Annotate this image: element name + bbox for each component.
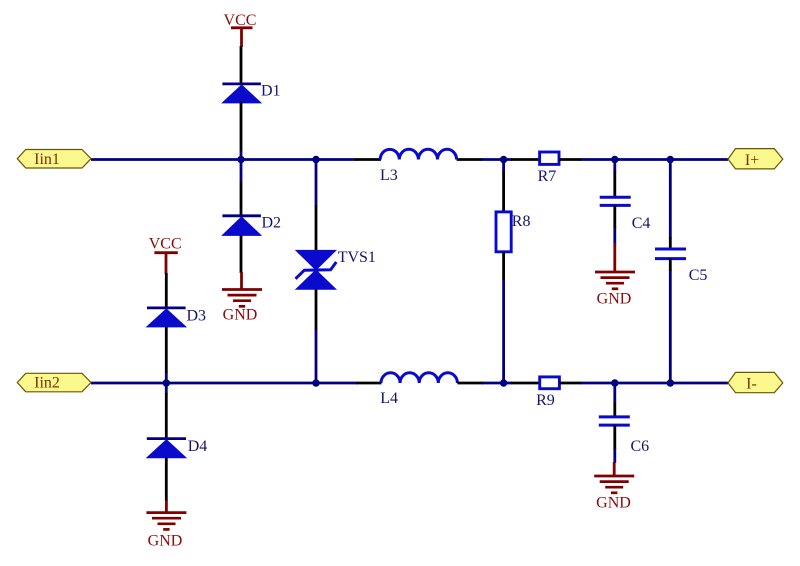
junction node Iin1/D1/D2 xyxy=(237,156,244,163)
power port VCC left xyxy=(149,236,182,274)
pin D3 cathode (to VCC) xyxy=(165,273,168,308)
wire C4 to GND segment xyxy=(613,227,616,244)
svg-text:TVS1: TVS1 xyxy=(338,249,376,266)
capacitor C5 xyxy=(655,249,707,284)
pin R7 left xyxy=(511,158,540,161)
pin C5 bottom xyxy=(669,259,672,271)
pin R7 right xyxy=(559,158,581,161)
svg-text:GND: GND xyxy=(148,533,183,550)
pin TVS1 bottom xyxy=(315,289,318,329)
svg-text:D2: D2 xyxy=(262,215,282,232)
inductor L3 xyxy=(380,149,457,184)
ground GND under D4 xyxy=(146,500,186,550)
svg-text:I+: I+ xyxy=(745,152,759,169)
wire R8 column lower xyxy=(502,279,505,383)
capacitor C6 xyxy=(599,417,649,455)
wire bottom rail: R9 to I- xyxy=(580,382,728,385)
pin L4 left xyxy=(356,382,382,385)
diode D3 xyxy=(147,308,206,327)
junction node bottom rail / R8 xyxy=(500,379,507,386)
wire TVS column upper xyxy=(315,160,318,207)
pin C4 top xyxy=(613,171,616,196)
svg-text:GND: GND xyxy=(223,307,258,324)
svg-text:D4: D4 xyxy=(188,438,208,455)
wire C5 column lower xyxy=(669,270,672,383)
wire bottom rail: L4 to R9 xyxy=(482,382,512,385)
wire C6 to GND segment xyxy=(613,448,616,463)
svg-text:C4: C4 xyxy=(632,215,651,232)
svg-text:R9: R9 xyxy=(536,392,555,409)
pin D2 anode xyxy=(240,235,243,273)
wire C6 column upper stub xyxy=(613,383,616,404)
junction node bottom rail / TVS xyxy=(312,379,319,386)
port Iin1 xyxy=(17,150,91,169)
wire stub at node D1/D2 column xyxy=(240,151,243,183)
pin D4 anode xyxy=(165,458,168,501)
junction node top rail / R8 xyxy=(500,156,507,163)
svg-text:R8: R8 xyxy=(512,213,531,230)
wire top rail: Iin1 to L3 xyxy=(91,158,356,161)
pin D3 anode xyxy=(165,327,168,373)
diode D4 xyxy=(147,438,207,458)
pin D1 anode xyxy=(240,102,243,152)
pin L3 right xyxy=(457,158,482,161)
pin C4 bottom xyxy=(613,205,616,228)
pin R8 bottom xyxy=(502,252,505,280)
TVS diode TVS1 xyxy=(296,249,376,289)
pin C6 bottom xyxy=(613,425,616,449)
svg-text:Iin2: Iin2 xyxy=(34,375,60,392)
diode D2 xyxy=(222,215,281,236)
junction node bottom rail / C5 xyxy=(667,379,674,386)
wire top rail: R7 to I+ xyxy=(580,158,728,161)
pin R8 top xyxy=(502,171,505,212)
pin D2 cathode xyxy=(240,182,243,216)
wire C4 column upper stub xyxy=(613,160,616,173)
resistor R8 xyxy=(496,212,530,252)
ground GND under D2 xyxy=(222,272,262,324)
junction node top rail / TVS xyxy=(312,156,319,163)
pin R9 right xyxy=(559,382,581,385)
resistor R9 xyxy=(536,377,559,409)
resistor R7 xyxy=(538,152,559,185)
svg-text:Iin1: Iin1 xyxy=(34,151,60,168)
port I- xyxy=(728,372,783,392)
junction node bottom rail / C6 xyxy=(611,379,618,386)
pin L3 left xyxy=(355,158,381,161)
svg-text:L4: L4 xyxy=(380,390,398,407)
wire D3/D4 column stub xyxy=(165,372,168,394)
svg-text:C6: C6 xyxy=(631,438,650,455)
pin C6 top xyxy=(613,403,616,416)
junction node top rail / C4 xyxy=(611,156,618,163)
svg-text:GND: GND xyxy=(596,495,631,512)
svg-text:D1: D1 xyxy=(261,83,281,100)
port I+ xyxy=(728,149,783,169)
svg-text:GND: GND xyxy=(597,291,632,308)
pin C5 top xyxy=(669,237,672,249)
junction node top rail / C5 xyxy=(667,156,674,163)
svg-text:D3: D3 xyxy=(187,308,207,325)
pin D1 cathode (to VCC) xyxy=(240,46,243,83)
inductor L4 xyxy=(380,373,457,407)
diode D1 xyxy=(222,83,280,103)
wire R8 column upper stub xyxy=(502,160,505,173)
port Iin2 xyxy=(17,373,91,392)
pin D4 cathode xyxy=(165,393,168,438)
svg-text:L3: L3 xyxy=(380,167,398,184)
wire TVS column lower xyxy=(315,329,318,384)
wire bottom rail: Iin2 to L4 xyxy=(91,382,357,385)
wire top rail: L3 to R7 xyxy=(481,158,512,161)
pin R9 left xyxy=(511,382,540,385)
capacitor C4 xyxy=(600,197,651,232)
svg-text:R7: R7 xyxy=(538,168,557,185)
svg-text:C5: C5 xyxy=(689,267,708,284)
junction node Iin2/D3/D4 xyxy=(163,379,170,386)
svg-text:I-: I- xyxy=(746,376,757,393)
pin L4 right xyxy=(457,382,483,385)
svg-text:VCC: VCC xyxy=(149,236,182,253)
power port VCC top xyxy=(224,12,257,47)
ground GND under C4 xyxy=(595,243,635,308)
pin TVS1 top xyxy=(315,205,318,251)
wire C5 column upper xyxy=(669,160,672,239)
ground GND under C6 xyxy=(594,462,634,512)
